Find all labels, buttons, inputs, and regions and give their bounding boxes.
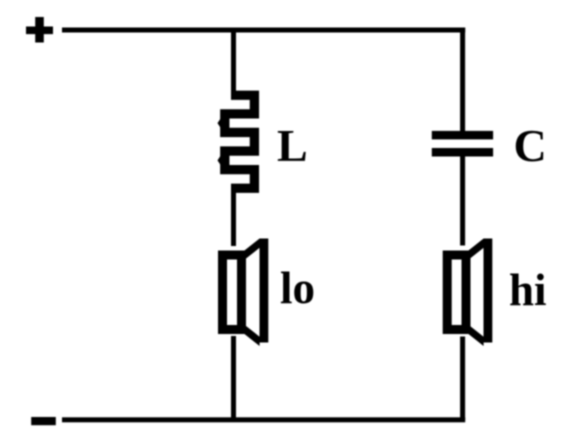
svg-text:hi: hi (509, 265, 547, 315)
wire right branch lower (460, 337, 465, 421)
wire left branch middle (231, 186, 236, 246)
plus terminal (26, 17, 53, 43)
wire right branch middle (460, 157, 465, 246)
wire right branch upper (460, 28, 465, 132)
wire top (62, 28, 465, 33)
minus terminal (31, 417, 56, 425)
capacitor C (432, 131, 493, 157)
svg-text:C: C (514, 120, 547, 171)
wire left branch lower (231, 336, 236, 420)
speaker hi (447, 239, 492, 347)
speaker lo (223, 239, 269, 347)
wire bottom (62, 417, 465, 422)
svg-text:L: L (277, 120, 308, 171)
svg-text:lo: lo (280, 263, 315, 313)
wire left branch upper (231, 30, 236, 98)
inductor L (218, 95, 255, 188)
